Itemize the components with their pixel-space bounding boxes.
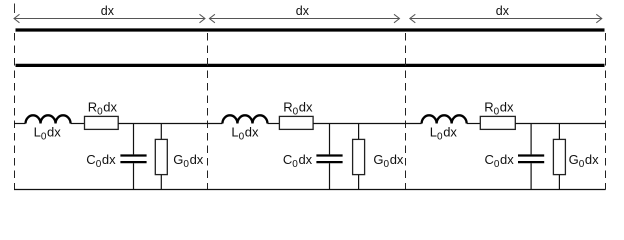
wire L3 to R3 [467,123,481,125]
conductance G2 box [353,139,365,174]
wire R1 across shunt junctions to L2 [118,123,222,125]
wire R3 across shunt junctions to right boundary [515,123,605,125]
capacitor C1 plates [120,156,146,163]
dimension arrow dx section 2 [209,14,399,22]
wire R2 across shunt junctions to L3 [313,123,422,125]
wire L2 to R2 [268,123,280,125]
wire L1 to R1 [71,123,85,125]
inductor L3 [422,115,467,123]
capacitor C2 bottom lead [329,163,331,189]
svg-text:dx: dx [101,4,115,18]
resistor R3 [480,116,515,129]
section boundary dashed line 2 [207,33,209,190]
conductance G2 top lead [358,124,360,140]
conductance G1 box [155,139,167,174]
capacitor C1 top lead [133,124,135,155]
conductance G1 top lead [160,124,162,140]
wire top rail segment 1 [14,123,26,125]
conductance G1 bottom lead [160,175,162,190]
conductance G3 box [553,139,565,174]
section boundary dashed line 4 [605,33,607,190]
inductor L2 [222,115,267,123]
capacitor C3 bottom lead [530,163,532,189]
conductance G3 top lead [558,124,560,140]
conductance G2 bottom lead [358,175,360,190]
dimension arrow dx section 3 [410,14,602,22]
capacitor C3 top lead [530,124,532,155]
capacitor C3 plates [518,156,544,163]
resistor R1 [85,116,119,129]
bottom return wire [14,189,606,191]
capacitor C1 bottom lead [133,163,135,189]
section boundary dashed line 1 [14,33,16,190]
transmission line lower conductor [16,64,605,67]
dimension arrow dx section 1 [14,14,205,22]
section boundary dashed line 3 [405,33,407,190]
capacitor C2 plates [316,156,342,163]
capacitor C2 top lead [329,124,331,155]
inductor L1 [26,115,71,123]
dimension extension tick top-left [14,4,16,14]
conductance G3 bottom lead [558,175,560,190]
transmission line upper conductor [16,28,605,31]
resistor R2 [279,116,313,129]
svg-text:dx: dx [296,4,310,18]
svg-text:dx: dx [496,4,510,18]
